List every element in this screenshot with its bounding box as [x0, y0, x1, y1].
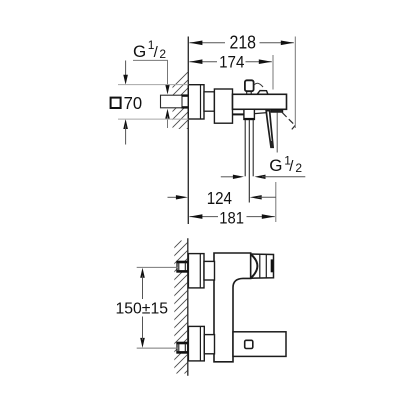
wall line (bottom view): [187, 238, 189, 375]
svg-text:218: 218: [230, 32, 257, 53]
body underside lip (left of spout block): [233, 113, 244, 115]
extension line 174 (right): [272, 55, 274, 90]
union nut (top view): [214, 89, 232, 123]
lever blade end-on (dark bar): [271, 259, 273, 272]
G1/2 leader (top): [133, 60, 168, 87]
extension line 181 (right): [275, 182, 277, 222]
connector stub (top view): [204, 92, 214, 111]
extension line 218 (right): [294, 37, 296, 129]
top nut (bottom view): [176, 262, 188, 272]
wall hatching (bottom view): [158, 218, 196, 416]
wall hatching (top view): [164, 64, 196, 160]
body (bottom view): [214, 253, 251, 362]
spout (bottom view): [233, 332, 286, 357]
dome arc: [251, 255, 257, 278]
bottom escutcheon (bottom view): [188, 326, 204, 361]
dimension 150±15: [116, 267, 178, 348]
dimension 181: [189, 209, 274, 228]
bottom nut (bottom view): [176, 343, 188, 353]
knob on top: [245, 80, 254, 91]
dimension 70 vertical: [125, 61, 127, 79]
svg-text:174: 174: [219, 52, 244, 71]
dimension 218: [189, 32, 293, 53]
svg-text:G: G: [269, 156, 282, 175]
gray extension lines for 70: [118, 84, 188, 86]
dashed arc (knob movement): [254, 83, 263, 87]
svg-text:150±15: 150±15: [116, 300, 169, 317]
supply elbow pipe behind wall: [161, 95, 189, 108]
dimension 174: [189, 52, 271, 71]
svg-text:2: 2: [159, 47, 166, 61]
spout base block: [244, 109, 255, 119]
wall line (top view): [187, 37, 189, 225]
spout tube lines: [244, 120, 246, 177]
svg-text:124: 124: [207, 188, 233, 208]
top escutcheon (bottom view): [188, 254, 204, 288]
body bar (top view): [233, 94, 287, 109]
lever root (dark): [271, 110, 283, 113]
lever blade pointing down: [266, 111, 273, 148]
handle cylinder (bottom view): [251, 254, 274, 278]
escutcheon (top view): [188, 85, 204, 119]
body underside slant (right of spout block): [255, 113, 267, 114]
svg-text:G: G: [133, 42, 146, 61]
label G 1/2 (top): [133, 38, 166, 61]
aerator square: [245, 340, 253, 348]
dimension 124: [168, 188, 277, 208]
svg-text:2: 2: [295, 161, 302, 175]
top connector (bottom view): [204, 261, 215, 280]
dashed lever swing line: [280, 111, 295, 130]
label square 70: [111, 98, 121, 108]
svg-text:70: 70: [124, 93, 143, 113]
label G 1/2 (middle): [269, 153, 302, 175]
bottom connector (bottom view): [204, 335, 214, 354]
lever flat on top of body: [257, 91, 268, 95]
svg-text:181: 181: [219, 209, 244, 228]
G1/2 leader arrows at spout (middle): [221, 176, 237, 178]
